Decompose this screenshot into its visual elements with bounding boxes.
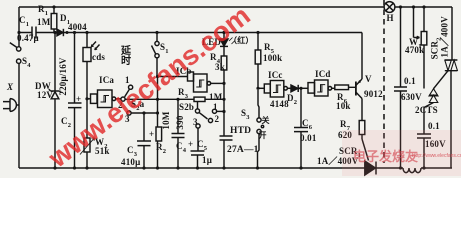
label DW [35, 82, 51, 91]
label 4148 [270, 100, 289, 109]
label 1A/400V vertical [441, 18, 450, 58]
lamp H [384, 2, 395, 13]
switch S4 [17, 47, 21, 51]
wire left rail [18, 7, 20, 168]
capacitor C1 [32, 27, 36, 39]
label S1 [160, 43, 169, 54]
label 27A-1 [227, 146, 259, 155]
wire contact3 to R2 line [131, 112, 157, 114]
label V [365, 75, 372, 84]
label H [387, 14, 394, 23]
label ICa [99, 76, 114, 85]
label W2 [95, 138, 108, 149]
label 1A/400V [317, 157, 358, 166]
label plus C5 [188, 140, 193, 149]
label kai [259, 131, 267, 140]
label 220u/16V [59, 48, 68, 105]
stamp background tint [342, 130, 461, 176]
wire SCR gate [362, 139, 369, 161]
label C5 [197, 140, 207, 151]
potentiometer W2 [86, 99, 88, 168]
label R7 [340, 120, 350, 131]
label 51k [95, 147, 110, 156]
label X [7, 83, 13, 92]
wire ICb input [158, 76, 188, 78]
label C3 [127, 146, 137, 157]
junction dots bottom rail [53, 166, 425, 169]
label D2 [287, 94, 297, 105]
label C4 [176, 142, 186, 153]
photoresistor cds [86, 33, 88, 99]
stamp url [412, 153, 461, 159]
label pin 1 S2b [213, 103, 218, 112]
label 390 [176, 114, 185, 131]
LED LED2 (red) [223, 33, 225, 40]
label 0.1 (160V) [428, 122, 440, 131]
wire emitter supply drop [361, 33, 363, 80]
switch S2a [121, 97, 125, 101]
switch S2b [197, 102, 199, 109]
label 2CTS [415, 106, 438, 115]
separator dashed line [383, 0, 385, 163]
label pin 3 S2b [193, 118, 198, 127]
zener diode DW [54, 33, 56, 169]
wire top rail [19, 6, 452, 8]
label 12V [37, 91, 53, 100]
resistor R7 [361, 99, 363, 140]
resistor R1 [53, 7, 55, 33]
label R1 [38, 5, 48, 16]
label D1 [60, 14, 70, 25]
label R6 [337, 93, 347, 104]
resistor R5 [257, 33, 259, 89]
label cds [92, 53, 105, 62]
label 1M (R1) [37, 18, 50, 27]
label guan [262, 116, 270, 125]
capacitor C2 [74, 33, 76, 169]
inverter gate ICa [87, 98, 91, 100]
piezo HTD plates [220, 136, 233, 140]
label ICd [315, 70, 331, 79]
capacitor 0.1/160V [423, 107, 425, 168]
label 4004 [68, 23, 87, 32]
wire second rail [19, 32, 362, 34]
capacitor C3 [143, 113, 145, 168]
plug X [3, 99, 19, 112]
label 160V [425, 140, 446, 149]
label 9012 [364, 90, 383, 99]
label 10k [336, 102, 351, 111]
wire triac gate to diac [434, 71, 449, 89]
label 620 [338, 131, 352, 140]
diac 2CTS [429, 89, 438, 96]
wire S1 node down through R2 [157, 77, 159, 169]
label SCR2 vertical [431, 36, 442, 60]
label S4 [22, 57, 31, 68]
label C2 [61, 117, 71, 128]
capacitor C4 [177, 99, 179, 168]
thyristor SCR [365, 161, 376, 175]
label R3 [178, 88, 188, 99]
transistor V 9012 [355, 82, 357, 96]
triac SCR2 [451, 7, 452, 168]
wire S2b contact1 [217, 110, 224, 112]
wire node to ICc [258, 87, 264, 89]
wire S2a pole to R2 line [125, 98, 194, 100]
watermark www.elecfans.com [61, 173, 63, 175]
label R5 [264, 43, 274, 54]
capacitor C5 [197, 128, 200, 168]
label C6 [302, 119, 312, 130]
junction dots middle nodes [85, 75, 302, 115]
label S2a [131, 100, 144, 111]
junction dots top rail [52, 5, 425, 8]
wire ICb output [211, 82, 224, 84]
label 100k [263, 54, 282, 63]
resistor R2 [156, 127, 162, 141]
label pin 2 [118, 101, 123, 110]
label R4 [210, 53, 220, 64]
label C1 [19, 16, 29, 27]
label plus C3 [149, 130, 154, 139]
label 410u [121, 158, 140, 167]
label 470k [405, 46, 424, 55]
label W1 [409, 38, 422, 49]
label HTD [230, 127, 251, 136]
wire LED/R4 line down to piezo [223, 70, 225, 136]
label hong [229, 36, 254, 45]
wire R3 to LED line [205, 98, 224, 100]
label S2b [179, 103, 194, 112]
label ICc [268, 71, 283, 80]
inductor L coil on bottom rail [403, 168, 421, 173]
capacitor C6 [300, 88, 302, 168]
label R2 [156, 143, 166, 154]
resistor R3 [194, 97, 205, 101]
inverter gate ICd [308, 83, 315, 94]
label 1M (R3) [209, 93, 222, 102]
wire bottom rail [19, 167, 452, 169]
label 0.01 [300, 134, 317, 143]
potentiometer W1 wiper arm [414, 7, 420, 39]
label plus C2 [76, 95, 81, 104]
switch S3 [258, 90, 259, 118]
diode D2 [287, 87, 291, 89]
stamp chinese characters [353, 146, 418, 165]
label SCR [339, 147, 361, 158]
label pin 3 [125, 115, 130, 124]
label LED [202, 38, 221, 47]
label 3k [215, 63, 225, 72]
junction dots second rail [17, 31, 259, 34]
resistor R6 [332, 87, 356, 88]
label 0.47u [17, 34, 39, 43]
wire ICa out to S2a pole [116, 98, 121, 100]
label yanshi [121, 47, 132, 67]
label 1u [202, 156, 212, 165]
label ICb [176, 67, 192, 76]
label 0.1 (630V) [404, 77, 416, 86]
potentiometer W1 [423, 7, 425, 89]
label pin 2 S2b [215, 115, 220, 124]
capacitor 0.1/630V [400, 7, 402, 168]
switch S1 [156, 33, 158, 77]
inverter gate ICc [264, 84, 270, 93]
inverter gate ICb [188, 72, 194, 81]
resistor R4 [223, 46, 225, 56]
label 630V [401, 93, 422, 102]
label pin 1 [125, 76, 130, 85]
label S3 [241, 109, 250, 120]
label 10M [162, 111, 171, 130]
diode D1 [57, 29, 63, 36]
